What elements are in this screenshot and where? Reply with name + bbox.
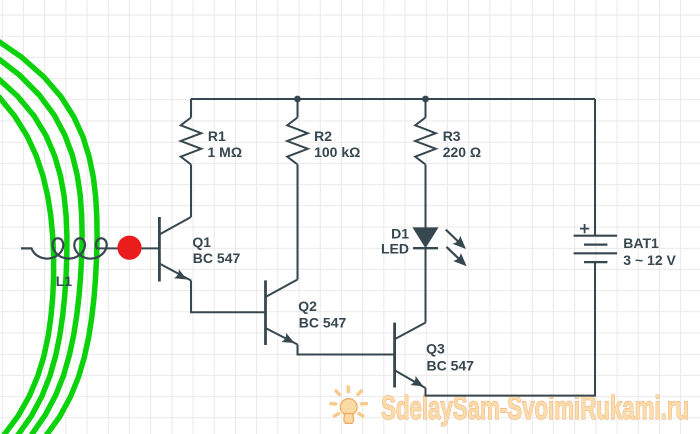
svg-text:220 Ω: 220 Ω xyxy=(443,144,481,160)
svg-text:Q2: Q2 xyxy=(298,298,317,314)
antenna wave arc 3 xyxy=(0,76,67,434)
svg-text:BC 547: BC 547 xyxy=(299,315,347,331)
node: red probe dot xyxy=(117,236,141,260)
wire bottom return xyxy=(426,262,596,396)
watermark bulb icon xyxy=(340,399,357,424)
inductor L1 xyxy=(21,238,107,258)
transistor Q3 xyxy=(393,323,396,388)
resistor R1 xyxy=(190,99,192,118)
svg-text:D1: D1 xyxy=(391,226,409,242)
junction node R2 top xyxy=(294,96,301,103)
wire L1 to Q1 base xyxy=(96,247,158,249)
transistor Q2 emitter arrow xyxy=(281,333,297,348)
svg-text:R1: R1 xyxy=(208,128,226,144)
antenna wave arc 4 xyxy=(0,96,54,434)
battery BAT1 plates xyxy=(574,235,618,237)
transistor Q1 emitter arrow xyxy=(174,269,190,284)
antenna wave arc 2 xyxy=(0,55,82,434)
antenna wave arc 1 xyxy=(0,37,97,434)
wire Q1 emitter to Q2 base xyxy=(191,281,265,313)
resistor R2 xyxy=(297,99,299,118)
resistor R3 xyxy=(425,99,427,118)
svg-text:L1: L1 xyxy=(56,273,73,289)
svg-text:Q3: Q3 xyxy=(426,341,445,357)
wire top bus xyxy=(191,98,595,100)
svg-text:BAT1: BAT1 xyxy=(623,235,659,251)
svg-text:100 kΩ: 100 kΩ xyxy=(314,144,360,160)
svg-text:BC 547: BC 547 xyxy=(427,357,475,373)
transistor Q2 xyxy=(264,280,267,345)
svg-text:Q1: Q1 xyxy=(192,234,211,250)
svg-text:1 MΩ: 1 MΩ xyxy=(208,144,243,160)
svg-text:LED: LED xyxy=(381,241,409,257)
LED D1 triangle xyxy=(414,228,437,247)
battery plus sign xyxy=(580,224,589,233)
wire Q2 emitter to Q3 base xyxy=(298,345,394,355)
svg-text:R3: R3 xyxy=(443,128,461,144)
LED light arrow 1 xyxy=(442,226,470,253)
transistor Q3 emitter arrow xyxy=(410,376,426,391)
svg-text:3 ~ 12 V: 3 ~ 12 V xyxy=(623,252,676,268)
LED light arrow 2 xyxy=(443,243,471,270)
svg-text:R2: R2 xyxy=(314,128,332,144)
transistor Q1 xyxy=(158,217,161,282)
LED D1 body xyxy=(425,248,427,322)
svg-text:BC 547: BC 547 xyxy=(193,250,241,266)
wire battery top lead xyxy=(594,99,596,236)
junction node R3 top xyxy=(422,96,429,103)
